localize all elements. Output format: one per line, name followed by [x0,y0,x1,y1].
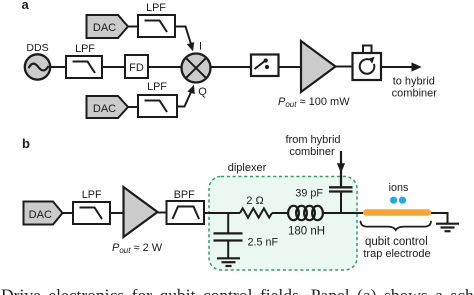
svg-text:LPF: LPF [75,43,95,55]
amplifier A1 [301,41,336,92]
brace under electrode [361,221,432,230]
BPF box [167,201,205,224]
svg-text:Q: Q [198,86,207,98]
svg-text:39 pF: 39 pF [295,188,323,200]
wire FD to mixer [148,66,182,68]
DAC2 (lower) [87,96,129,118]
svg-text:DDS: DDS [26,42,48,54]
wire from hybrid combiner down arrow [337,151,345,187]
wire DAC1 to LPF2 [128,26,138,28]
capacitor C2 39 pF [329,187,353,213]
svg-text:2 Ω: 2 Ω [246,195,263,207]
DDS source [25,54,50,79]
FD box [125,55,148,78]
DAC3 (panel b) [24,202,63,225]
wire LPF2 to mixer I arrow [175,27,194,52]
wire amp to circulator [336,66,353,68]
svg-text:2.5 nF: 2.5 nF [248,237,279,249]
svg-text:FD: FD [129,62,144,74]
switch S1 [251,55,279,77]
ground (diplexer) [217,258,240,266]
svg-text:b: b [22,136,30,151]
svg-text:DAC: DAC [93,22,116,34]
wire switch to amp [279,66,302,68]
svg-text:Drive electronics for qubit co: Drive electronics for qubit control fiel… [1,286,474,295]
wire DAC3 to LPF4 [63,212,74,214]
wire LPF1 to FD [102,66,125,68]
ion dots [390,197,406,204]
wire LPF3 to mixer Q arrow [177,85,195,107]
wire electrode to ground [431,213,448,224]
svg-text:a: a [22,0,30,12]
wire mixer to switch [211,66,252,68]
svg-text:Pout ≈ 100 mW: Pout ≈ 100 mW [278,96,350,109]
wire LPF4 to amp [110,212,124,214]
svg-text:qubit control: qubit control [365,236,428,248]
wire amp to BPF [158,212,167,214]
LPF2 box (upper) [138,15,175,37]
from hybrid combiner label [285,134,340,158]
svg-text:LPF: LPF [82,189,102,201]
svg-text:LPF: LPF [147,81,167,93]
svg-text:DAC: DAC [93,103,116,115]
output label to hybrid combiner [392,75,438,99]
amplifier A2 [124,187,158,237]
LPF3 box (lower) [138,95,177,117]
svg-text:to hybrid: to hybrid [393,75,435,87]
svg-text:diplexer: diplexer [228,162,267,174]
ground (electrode) [436,224,459,232]
svg-text:combiner: combiner [289,146,335,158]
svg-text:180 nH: 180 nH [288,226,325,238]
mixer U1 [182,54,211,83]
svg-text:from hybrid: from hybrid [285,134,340,146]
svg-text:Pout ≈ 2 W: Pout ≈ 2 W [112,242,163,255]
LPF4 box [73,202,110,224]
wire circulator to output arrow [381,62,422,71]
capacitor C1 2.5 nF [214,213,243,258]
LPF1 box [66,56,102,78]
svg-text:combiner: combiner [392,87,438,99]
resistor R1 2 Ohm [240,208,272,217]
DAC1 (upper) [87,15,129,38]
wire DAC2 to LPF3 [128,106,138,108]
svg-text:trap electrode: trap electrode [363,248,430,260]
svg-text:ions: ions [389,182,409,194]
diplexer dashed box [209,177,357,271]
wire BPF into diplexer to resistor [204,212,240,214]
svg-text:LPF: LPF [146,2,166,14]
svg-text:DAC: DAC [29,209,52,221]
wire DDS to LPF1 [50,66,66,68]
svg-text:I: I [199,41,202,53]
svg-text:BPF: BPF [174,189,195,201]
wire inductor to node [323,212,363,214]
inductor L1 180 nH [288,206,323,220]
trap electrode bar [363,209,431,215]
electrode label qubit control trap electrode [363,236,430,260]
wire resistor to inductor [272,212,289,214]
circulator U2 [353,46,382,81]
